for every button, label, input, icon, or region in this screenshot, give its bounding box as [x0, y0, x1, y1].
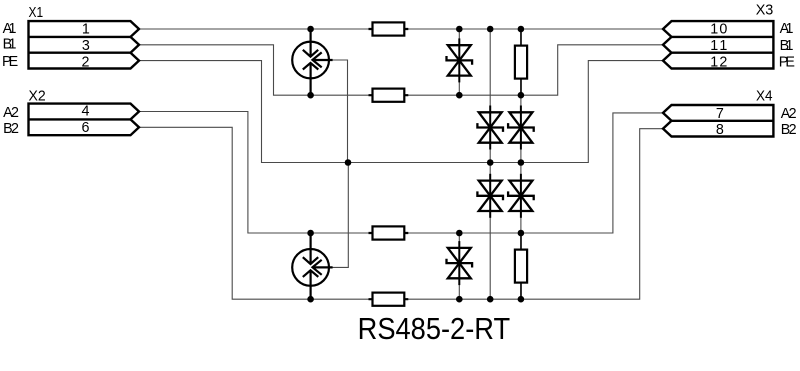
- svg-text:A1: A1: [780, 21, 794, 37]
- svg-text:X4: X4: [756, 88, 773, 105]
- svg-text:3: 3: [82, 38, 90, 54]
- svg-text:12: 12: [710, 55, 727, 71]
- svg-text:6: 6: [82, 120, 90, 136]
- svg-text:B2: B2: [3, 121, 19, 137]
- svg-text:B1: B1: [780, 38, 794, 54]
- svg-text:B1: B1: [3, 37, 17, 53]
- svg-text:X1: X1: [29, 4, 44, 21]
- svg-text:11: 11: [710, 38, 727, 54]
- svg-text:A2: A2: [781, 106, 797, 122]
- svg-text:PE: PE: [2, 54, 18, 70]
- svg-text:A1: A1: [3, 21, 17, 37]
- svg-text:PE: PE: [779, 55, 795, 71]
- svg-text:4: 4: [82, 104, 90, 120]
- svg-text:7: 7: [716, 106, 724, 122]
- svg-text:8: 8: [716, 122, 724, 138]
- svg-text:10: 10: [710, 22, 727, 38]
- svg-text:A2: A2: [3, 105, 19, 121]
- svg-text:RS485-2-RT: RS485-2-RT: [358, 311, 511, 346]
- svg-text:B2: B2: [781, 122, 797, 138]
- svg-text:1: 1: [82, 22, 90, 38]
- svg-text:2: 2: [82, 55, 90, 71]
- svg-text:X3: X3: [756, 2, 774, 19]
- svg-text:X2: X2: [29, 87, 46, 104]
